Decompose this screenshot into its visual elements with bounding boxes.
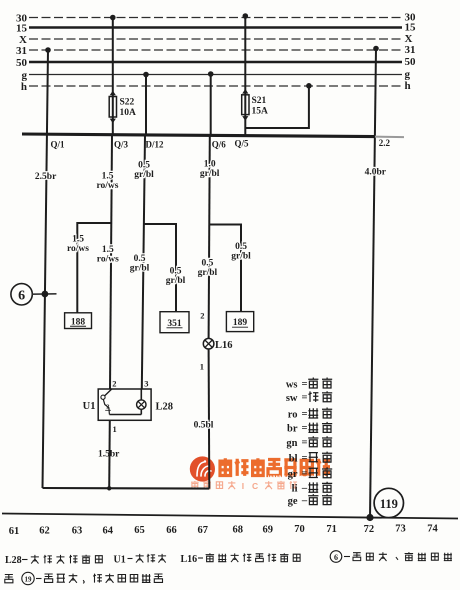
svg-text:Q/5: Q/5: [235, 139, 250, 149]
wire 2.2 feeder (4.0br to ground 119): [370, 49, 376, 519]
svg-text:2.2: 2.2: [379, 138, 391, 148]
svg-text:I: I: [242, 481, 244, 491]
svg-text:=: =: [302, 469, 308, 480]
branch wire to 351: [144, 224, 176, 312]
node U1 pin1 to ground: [107, 486, 111, 490]
watermark big text: [218, 458, 330, 476]
svg-text:gr/bl: gr/bl: [130, 263, 150, 273]
legend ws: [286, 378, 332, 391]
lamp L28 inside U1: [137, 389, 146, 415]
svg-text:ro/ws: ro/ws: [67, 244, 89, 254]
svg-text:h: h: [405, 80, 411, 92]
current track rail: [2, 514, 458, 519]
caption line 1: [5, 551, 452, 566]
op U1 box: [98, 389, 151, 420]
svg-text:67: 67: [198, 525, 209, 536]
svg-text:31: 31: [405, 44, 416, 56]
connector bar: [22, 134, 375, 137]
internal rail of U1: [109, 414, 141, 416]
wire U1 pin1 to ground: [108, 420, 111, 488]
svg-text:68: 68: [232, 525, 243, 536]
svg-text:ro/ws: ro/ws: [97, 254, 119, 264]
svg-text:U1: U1: [114, 555, 126, 566]
wire Q/3 feeder above bus (via fuse S22): [112, 18, 114, 135]
legend br: [287, 422, 332, 435]
svg-text:gn: gn: [286, 438, 297, 449]
svg-text:Q/3: Q/3: [114, 140, 129, 150]
node junction with 2.5br wire: [42, 291, 49, 298]
node on bus h: [306, 83, 312, 89]
wire Q/1 feeder (2.5br, ground 31): [43, 50, 49, 488]
branch wire to 189: [209, 225, 241, 312]
branch wire to 188: [77, 223, 111, 313]
box 351: [160, 312, 189, 333]
box 189: [226, 312, 253, 332]
switch inside U1: [101, 389, 112, 415]
ground wire horizontal: [43, 487, 210, 490]
svg-text:h: h: [21, 81, 27, 93]
legend bl: [289, 452, 332, 465]
bus line 30: [29, 17, 402, 19]
svg-text:63: 63: [72, 526, 83, 537]
node on bus g: [143, 72, 149, 78]
svg-text:g: g: [22, 69, 28, 81]
svg-text:2: 2: [200, 311, 204, 321]
svg-text:31: 31: [16, 45, 27, 57]
svg-text:=: =: [302, 423, 308, 434]
watermark slogan: [191, 481, 297, 491]
fuse S22: [109, 97, 116, 118]
svg-text:6: 6: [18, 289, 25, 304]
wire Q/3 below bus to U1 pin 2: [110, 135, 112, 389]
legend ge: [288, 494, 333, 507]
watermark logo circle: [190, 456, 215, 481]
svg-text:72: 72: [364, 524, 375, 535]
node on bus 31: [373, 46, 379, 52]
legend ro: [288, 408, 332, 421]
svg-text:2: 2: [106, 404, 109, 411]
svg-text:1: 1: [113, 424, 117, 434]
stub wire from 6: [32, 293, 56, 295]
svg-text:61: 61: [9, 526, 20, 537]
svg-text:1: 1: [200, 362, 204, 372]
node on bus 30: [243, 13, 249, 19]
bus line 50: [29, 61, 402, 64]
legend li: [292, 482, 333, 495]
node on bus 31: [45, 47, 51, 53]
wire Q/6 feeder from bus g: [210, 74, 212, 135]
svg-text:73: 73: [395, 524, 406, 535]
svg-text:66: 66: [166, 525, 177, 536]
svg-text:=: =: [302, 393, 308, 404]
svg-text:351: 351: [167, 319, 182, 329]
svg-text:=: =: [302, 379, 308, 390]
svg-text:70: 70: [294, 524, 305, 535]
svg-text:D/12: D/12: [146, 140, 165, 150]
svg-text:188: 188: [71, 317, 86, 327]
svg-text:L28: L28: [156, 402, 174, 413]
svg-text:=: =: [302, 409, 308, 420]
svg-text:189: 189: [233, 318, 248, 328]
svg-text:S22: S22: [120, 98, 135, 108]
svg-text:3: 3: [144, 379, 148, 389]
svg-text:gr/bl: gr/bl: [166, 276, 186, 286]
svg-text:50: 50: [405, 56, 417, 68]
svg-text:S21: S21: [252, 96, 267, 106]
svg-text:62: 62: [39, 526, 50, 537]
svg-text:74: 74: [427, 523, 438, 534]
legend sw: [286, 391, 332, 404]
svg-text:15: 15: [405, 22, 417, 34]
svg-text:gr/bl: gr/bl: [231, 251, 251, 261]
svg-text:L28: L28: [5, 555, 22, 566]
wire D/12 below bus to U1 pin 3: [142, 135, 145, 389]
svg-text:2.5br: 2.5br: [35, 172, 57, 182]
connection point 6: [11, 284, 32, 305]
svg-text:g: g: [405, 69, 411, 81]
svg-text:gr/bl: gr/bl: [134, 170, 154, 180]
svg-text:119: 119: [380, 497, 398, 511]
box 188: [65, 313, 92, 329]
svg-text:4.0br: 4.0br: [365, 168, 387, 178]
svg-text:65: 65: [134, 525, 145, 536]
lamp L16: [203, 338, 214, 349]
bus line 31: [29, 49, 402, 51]
caption line 2: [5, 572, 163, 584]
svg-text:U1: U1: [83, 401, 96, 412]
svg-text:ws: ws: [286, 379, 298, 390]
svg-text:gr: gr: [288, 469, 298, 480]
svg-text:–: –: [301, 483, 308, 494]
wire L16 pin1 down to ground wire: [208, 349, 211, 489]
svg-text:sw: sw: [286, 393, 298, 404]
svg-text:br: br: [287, 424, 298, 435]
svg-text:bl: bl: [289, 453, 298, 464]
svg-text:gr/bl: gr/bl: [198, 268, 218, 278]
ground point 119: [374, 488, 403, 517]
svg-text:=: =: [302, 453, 308, 464]
svg-text:L16: L16: [215, 340, 233, 351]
svg-text:–: –: [301, 495, 308, 506]
svg-text:15: 15: [16, 22, 28, 34]
bus line 15: [29, 26, 402, 29]
legend gn: [286, 436, 332, 449]
legend gr: [288, 467, 333, 480]
svg-text:50: 50: [16, 57, 28, 69]
ground node 119 on track rail: [366, 514, 373, 521]
svg-text:ro: ro: [288, 409, 298, 420]
svg-text:gr/bl: gr/bl: [200, 169, 220, 179]
svg-text:L16: L16: [181, 554, 198, 565]
svg-text:69: 69: [262, 524, 273, 535]
svg-text:2: 2: [112, 379, 116, 389]
svg-text:19: 19: [25, 575, 33, 583]
wire from bus h to Q/5: [245, 86, 309, 128]
svg-text:ro/ws: ro/ws: [97, 181, 119, 191]
svg-text:=: =: [302, 438, 308, 449]
bus line X: [29, 38, 402, 40]
svg-text:li: li: [292, 484, 298, 495]
svg-text:C: C: [252, 481, 258, 491]
wire Q/5 feeder (via fuse S21): [244, 16, 246, 135]
wire D/12 feeder from bus g: [145, 75, 147, 136]
svg-text:Q/1: Q/1: [51, 140, 66, 150]
svg-text:6: 6: [334, 553, 338, 562]
svg-text:Q/6: Q/6: [212, 140, 227, 150]
node on bus g: [208, 71, 214, 77]
node on bus 30: [110, 15, 116, 21]
svg-text:71: 71: [326, 524, 337, 535]
fuse S21: [242, 95, 249, 115]
bus line h: [29, 85, 402, 87]
svg-text:15A: 15A: [252, 107, 269, 117]
svg-text:ge: ge: [288, 496, 298, 507]
svg-text:0.5bl: 0.5bl: [194, 421, 214, 431]
bus line g: [29, 74, 402, 76]
wire Q/6 below bus to lamp L16: [209, 135, 210, 338]
svg-text:10A: 10A: [120, 108, 137, 118]
svg-text:64: 64: [102, 525, 113, 536]
